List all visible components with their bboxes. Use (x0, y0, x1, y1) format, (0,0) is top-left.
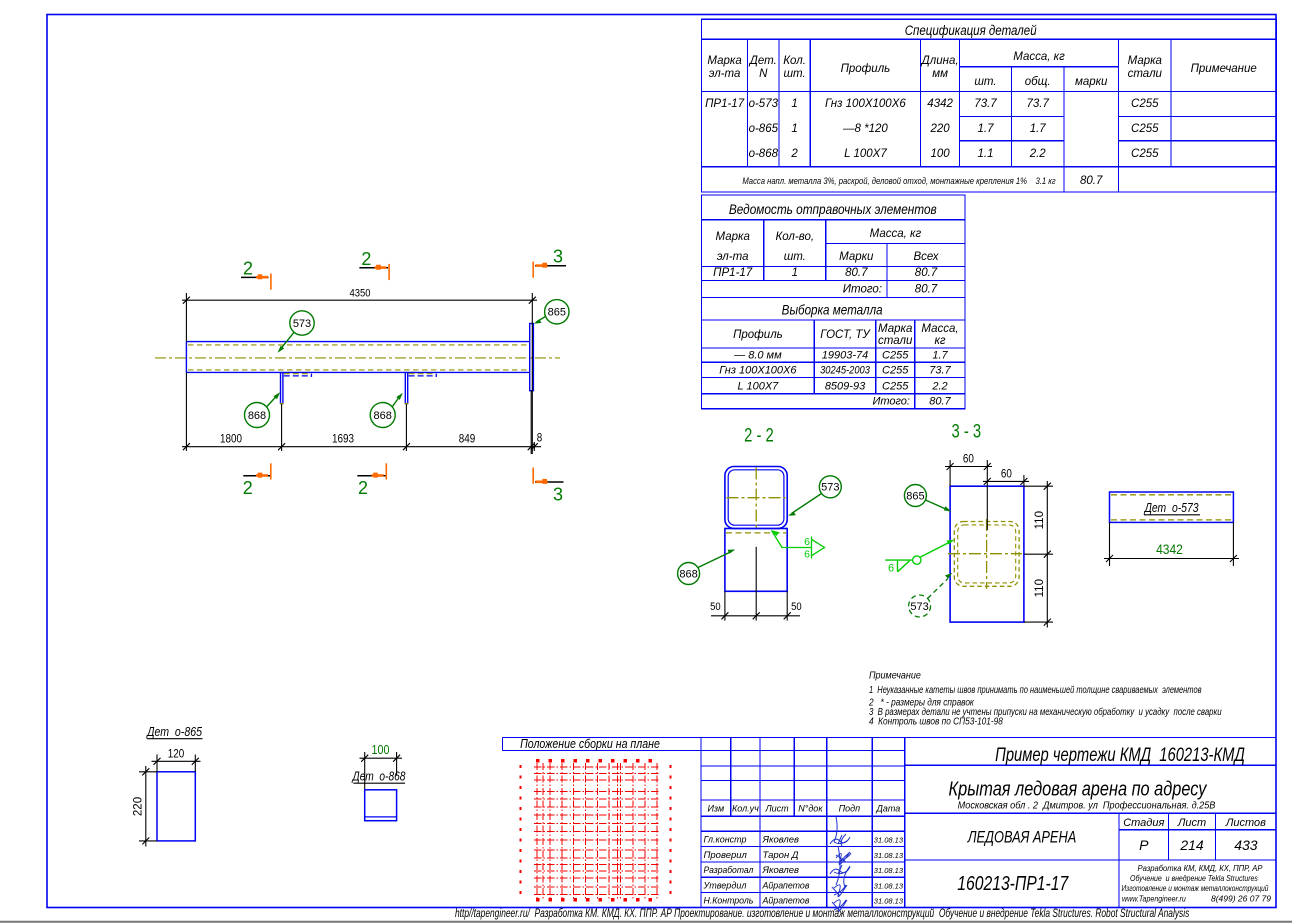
svg-text:С255: С255 (1131, 123, 1159, 135)
svg-text:73.7: 73.7 (974, 98, 997, 110)
plate 868 section 2-2 (725, 529, 787, 592)
dimension 4350 top (182, 293, 537, 454)
svg-text:80.7: 80.7 (1080, 175, 1103, 187)
stage/sheet header (1123, 817, 1266, 829)
svg-text:о-573: о-573 (749, 98, 779, 110)
svg-text:31.08.13: 31.08.13 (874, 881, 904, 890)
beam centre line (dash-dot olive) (155, 357, 560, 359)
svg-text:19903-74: 19903-74 (822, 350, 869, 362)
svg-text:Ведомость отправочных элементо: Ведомость отправочных элементов (729, 202, 937, 217)
detail o-573 hidden edges (1111, 494, 1232, 496)
balloon 573 dashed section 3-3 (909, 573, 953, 617)
svg-text:Масса,: Масса, (921, 323, 958, 335)
svg-text:Марка: Марка (707, 55, 741, 67)
title block grid (503, 738, 1277, 908)
balloon 573 section 2-2 (788, 476, 841, 516)
dimension 120 (152, 755, 201, 772)
svg-text:С255: С255 (1131, 98, 1159, 110)
balloon 573 on beam (278, 311, 315, 353)
svg-text:433: 433 (1234, 837, 1258, 853)
svg-text:50: 50 (710, 601, 721, 613)
svg-text:Яковлев: Яковлев (762, 865, 800, 876)
svg-text:60: 60 (963, 453, 974, 466)
svg-text:Н.Контроль: Н.Контроль (703, 895, 753, 905)
svg-text:573: 573 (910, 601, 928, 613)
beam hidden edge bottom (dashed olive) (188, 369, 528, 371)
svg-text:1693: 1693 (332, 433, 354, 446)
plate 865 section 3-3 (950, 486, 1024, 622)
dimension 60 second section 3-3 (983, 475, 1029, 486)
svg-text:865: 865 (548, 307, 566, 319)
svg-text:120: 120 (168, 748, 185, 761)
svg-text:3: 3 (553, 485, 563, 505)
detail o-868 body (365, 790, 397, 821)
svg-text:31.08.13: 31.08.13 (874, 897, 904, 906)
balloon 865 section 3-3 (904, 485, 951, 512)
beam bottom flange (186, 371, 529, 373)
svg-text:73.7: 73.7 (1027, 98, 1050, 110)
svg-text:Примечание: Примечание (869, 670, 921, 682)
svg-text:4350: 4350 (349, 288, 370, 300)
svg-text:С255: С255 (1131, 148, 1159, 160)
hidden tube inner (dashed olive) section 3-3 (958, 525, 1016, 583)
svg-text:Выборка металла: Выборка металла (782, 303, 883, 318)
svg-text:Дет.: Дет. (748, 55, 777, 67)
svg-text:Утвердил: Утвердил (703, 880, 748, 890)
signature rows (703, 834, 810, 906)
svg-text:6: 6 (804, 536, 810, 548)
svg-text:— 8.0 мм: — 8.0 мм (733, 350, 782, 362)
svg-text:стали: стали (878, 335, 913, 347)
weld symbol 6 section 3-3 (885, 542, 950, 572)
svg-text:—8 *120: —8 *120 (842, 123, 888, 135)
svg-text:ЛЕДОВАЯ АРЕНА: ЛЕДОВАЯ АРЕНА (967, 828, 1076, 847)
section mark 3 bottom-right (533, 468, 563, 505)
tab 868 no.2 (405, 372, 437, 404)
svg-text:1.7: 1.7 (1030, 123, 1047, 135)
tube outer contour section 2-2 (725, 467, 787, 529)
balloon 868 no.2 on beam (370, 393, 403, 428)
svg-text:N°док: N°док (798, 804, 823, 814)
svg-text:Лист: Лист (1177, 817, 1206, 829)
section mark 2 top-mid (359, 249, 389, 280)
svg-text:4342: 4342 (1156, 541, 1183, 557)
svg-text:С255: С255 (882, 350, 909, 362)
svg-text:http//tapengineer.ru/ Разрабо: http//tapengineer.ru/ Разработка КМ. КМД… (455, 907, 1189, 921)
svg-text:3 - 3: 3 - 3 (951, 421, 981, 442)
svg-text:Р: Р (1139, 837, 1149, 853)
svg-text:Гл.констр: Гл.констр (704, 834, 747, 844)
hidden tube outer (dashed olive) section 3-3 (954, 522, 1019, 587)
svg-text:Марки: Марки (839, 251, 874, 263)
svg-text:Яковлев: Яковлев (762, 835, 800, 846)
dimension 60 first section 3-3 (945, 460, 992, 486)
svg-text:ГОСТ, ТУ: ГОСТ, ТУ (820, 329, 871, 341)
svg-text:о-865: о-865 (749, 123, 779, 135)
section mark 2 bottom-left (243, 463, 271, 498)
svg-text:Итого:: Итого: (872, 396, 910, 408)
svg-text:Подп: Подп (839, 804, 861, 814)
balloon 865 on beam (534, 300, 569, 324)
revision header row (707, 804, 900, 814)
svg-text:Масса, кг: Масса, кг (870, 228, 922, 240)
svg-text:30245-2003: 30245-2003 (820, 365, 870, 377)
svg-text:Изм: Изм (707, 804, 724, 814)
svg-text:марки: марки (1075, 76, 1108, 88)
svg-text:Масса, кг: Масса, кг (1013, 51, 1065, 63)
vedomost headers (716, 228, 940, 263)
svg-text:31.08.13: 31.08.13 (874, 836, 904, 845)
svg-text:1.7: 1.7 (978, 123, 995, 135)
svg-text:Спецификация деталей: Спецификация деталей (905, 22, 1037, 38)
svg-text:Гнз 100Х100Х6: Гнз 100Х100Х6 (719, 365, 797, 377)
svg-text:Кол.: Кол. (783, 55, 806, 67)
table: Выборка металла - grid lines (702, 297, 966, 408)
svg-text:мм: мм (932, 68, 948, 80)
vedomost data (713, 267, 938, 296)
svg-text:8: 8 (537, 432, 543, 445)
svg-text:Стадия: Стадия (1123, 817, 1164, 829)
svg-text:L 100Х7: L 100Х7 (738, 381, 780, 393)
svg-text:8(499) 26 07 79: 8(499) 26 07 79 (1211, 894, 1271, 904)
vyborka headers (733, 323, 959, 347)
balloon 868 section 2-2 (678, 550, 736, 585)
svg-text:Разработка КМ, КМД, КХ, ППР, А: Разработка КМ, КМД, КХ, ППР, АР (1138, 864, 1264, 873)
section mark 3 top-right (533, 247, 566, 278)
end plate 865 (530, 324, 534, 391)
svg-text:общ.: общ. (1025, 76, 1051, 88)
weld symbol 6/6 section 2-2 (772, 531, 825, 559)
svg-text:80.7: 80.7 (929, 396, 951, 408)
svg-text:220: 220 (930, 123, 951, 135)
svg-text:2: 2 (243, 259, 253, 279)
section mark 2 bottom-mid (357, 463, 386, 498)
svg-text:Айрапетов: Айрапетов (762, 895, 810, 905)
notes text (868, 670, 1221, 728)
svg-text:2.2: 2.2 (1029, 148, 1047, 160)
svg-text:Кол.уч: Кол.уч (732, 804, 759, 814)
svg-text:100: 100 (372, 743, 390, 757)
svg-text:ПР1-17: ПР1-17 (705, 98, 745, 110)
svg-text:Дет о-865: Дет о-865 (145, 726, 202, 739)
svg-text:865: 865 (906, 490, 924, 502)
svg-text:Тарон Д: Тарон Д (763, 850, 799, 861)
svg-text:стали: стали (1128, 68, 1163, 80)
svg-text:31.08.13: 31.08.13 (874, 866, 904, 875)
svg-text:Масса напл. металла 3%, раскро: Масса напл. металла 3%, раскрой, деловой… (742, 175, 1056, 186)
svg-text:2.2: 2.2 (931, 381, 947, 393)
svg-text:ПР1-17: ПР1-17 (713, 267, 753, 279)
svg-text:50: 50 (791, 601, 802, 613)
svg-text:3: 3 (553, 247, 563, 267)
svg-text:6: 6 (804, 549, 810, 561)
tube centre lines section 2-2 (727, 497, 786, 499)
svg-text:кг: кг (934, 335, 945, 347)
beam left end (185, 342, 187, 373)
svg-text:Профиль: Профиль (733, 329, 783, 341)
vyborka data (719, 350, 951, 408)
svg-text:573: 573 (821, 482, 839, 494)
svg-text:Марка: Марка (716, 231, 750, 243)
svg-text:Крытая ледовая арена по адресу: Крытая ледовая арена по адресу (949, 777, 1209, 800)
svg-text:Кол-во,: Кол-во, (776, 231, 815, 243)
dimension 50/50 section 2-2 (711, 591, 800, 620)
svg-text:2: 2 (358, 478, 368, 498)
svg-text:Проверил: Проверил (704, 850, 748, 861)
svg-text:Всех: Всех (913, 251, 939, 263)
svg-text:Московская обл . 2 Дмитров. у: Московская обл . 2 Дмитров. ул Профессио… (958, 800, 1216, 812)
svg-text:1: 1 (791, 123, 797, 135)
svg-text:L 100Х7: L 100Х7 (844, 148, 887, 160)
svg-text:Дет о-868: Дет о-868 (351, 771, 406, 784)
svg-text:Положение сборки на плане: Положение сборки на плане (520, 738, 660, 751)
svg-text:эл-та: эл-та (709, 68, 741, 80)
svg-text:шт.: шт. (974, 76, 996, 88)
svg-text:110: 110 (1034, 579, 1046, 597)
svg-text:2: 2 (361, 249, 371, 269)
svg-text:4 Контроль швов по СП53-101-9: 4 Контроль швов по СП53-101-98 (869, 716, 1004, 728)
svg-text:Изготовление и монтаж металлок: Изготовление и монтаж металлоконструкций (1122, 883, 1270, 893)
dimension 100 (green) (360, 752, 403, 790)
svg-text:Пример чертежи КМД 160213-КМД: Пример чертежи КМД 160213-КМД (995, 744, 1245, 765)
svg-text:849: 849 (459, 433, 476, 446)
svg-text:1800: 1800 (220, 433, 242, 446)
section mark 2 top-left (241, 259, 271, 290)
table: Ведомость отправочных элементов - grid lines (702, 195, 966, 297)
bottom dimension line 1800 / 1693 / 849 / 8 (182, 372, 541, 454)
plate centre line (755, 547, 757, 621)
signature scribbles (830, 817, 851, 912)
svg-text:шт.: шт. (783, 68, 805, 80)
svg-text:60: 60 (1001, 468, 1012, 481)
svg-text:1 Неуказанные катеты швов при: 1 Неуказанные катеты швов принимать по н… (869, 684, 1202, 696)
tube inner contour section 2-2 (728, 470, 784, 525)
svg-text:80.7: 80.7 (915, 267, 938, 279)
svg-text:868: 868 (248, 410, 266, 422)
svg-text:шт.: шт. (784, 251, 806, 263)
svg-text:2 - 2: 2 - 2 (744, 425, 774, 446)
tab 868 no.1 (280, 372, 312, 404)
table: Спецификация деталей - grid lines (702, 19, 1277, 192)
svg-text:31.08.13: 31.08.13 (874, 851, 904, 860)
svg-text:о-868: о-868 (749, 148, 779, 160)
svg-text:868: 868 (679, 568, 697, 580)
svg-text:1: 1 (791, 98, 797, 110)
beam top flange (186, 341, 529, 343)
svg-text:Айрапетов: Айрапетов (762, 880, 810, 890)
detail o-865 body (157, 772, 195, 841)
svg-text:Листов: Листов (1225, 817, 1266, 829)
svg-text:2: 2 (790, 148, 798, 160)
detail o-573 body (1110, 492, 1234, 522)
svg-text:Марка: Марка (1128, 55, 1162, 67)
hidden edge in plate (dashed olive) (726, 532, 786, 534)
footer rule (0, 921, 1292, 923)
svg-text:214: 214 (1179, 837, 1204, 853)
svg-text:Итого:: Итого: (843, 284, 882, 296)
svg-text:Марка: Марка (878, 323, 912, 335)
company info (1122, 864, 1272, 904)
svg-text:73.7: 73.7 (929, 365, 951, 377)
svg-text:110: 110 (1034, 511, 1046, 529)
svg-text:Обучение и внедрение Tekla St: Обучение и внедрение Tekla Structures (1130, 873, 1258, 883)
svg-text:1: 1 (792, 267, 798, 279)
balloon 868 no.1 on beam (245, 392, 281, 427)
svg-text:Длина,: Длина, (920, 55, 959, 67)
svg-text:Дет о-573: Дет о-573 (1143, 502, 1199, 515)
svg-text:Гнз 100Х100Х6: Гнз 100Х100Х6 (825, 98, 906, 110)
spec table data rows (705, 98, 1159, 160)
svg-text:1.1: 1.1 (978, 148, 994, 160)
dimension 110/110 right section 3-3 (1024, 481, 1053, 628)
svg-text:1.7: 1.7 (932, 350, 948, 362)
svg-text:www.Tapengineer.ru: www.Tapengineer.ru (1122, 894, 1186, 904)
svg-text:80.7: 80.7 (915, 284, 938, 296)
svg-text:220: 220 (133, 797, 145, 816)
centre line black vertical section 3-3 (986, 460, 988, 530)
svg-text:80.7: 80.7 (845, 267, 868, 279)
svg-text:Профиль: Профиль (841, 63, 891, 75)
svg-text:эл-та: эл-та (717, 251, 749, 263)
svg-text:Дата: Дата (876, 804, 901, 814)
dimension 220 (139, 766, 157, 847)
beam hidden edge top (dashed olive) (188, 344, 528, 346)
svg-text:573: 573 (293, 318, 311, 330)
svg-text:Лист: Лист (765, 804, 790, 814)
svg-text:868: 868 (374, 410, 392, 422)
svg-text:8509-93: 8509-93 (825, 381, 866, 393)
svg-text:4342: 4342 (927, 98, 953, 110)
svg-text:С255: С255 (882, 381, 909, 393)
dimension 4342 (1104, 522, 1239, 566)
svg-text:Примечание: Примечание (1191, 63, 1257, 75)
spec table headers (707, 51, 1256, 88)
svg-text:N: N (759, 68, 768, 80)
tube centre lines section 3-3 (948, 553, 1022, 555)
svg-text:100: 100 (931, 148, 951, 160)
svg-text:Разработал: Разработал (703, 865, 753, 875)
svg-text:6: 6 (888, 563, 894, 575)
svg-text:С255: С255 (882, 365, 909, 377)
svg-text:2: 2 (243, 478, 253, 498)
red grid plan (521, 761, 671, 900)
svg-text:160213-ПР1-17: 160213-ПР1-17 (957, 872, 1069, 894)
